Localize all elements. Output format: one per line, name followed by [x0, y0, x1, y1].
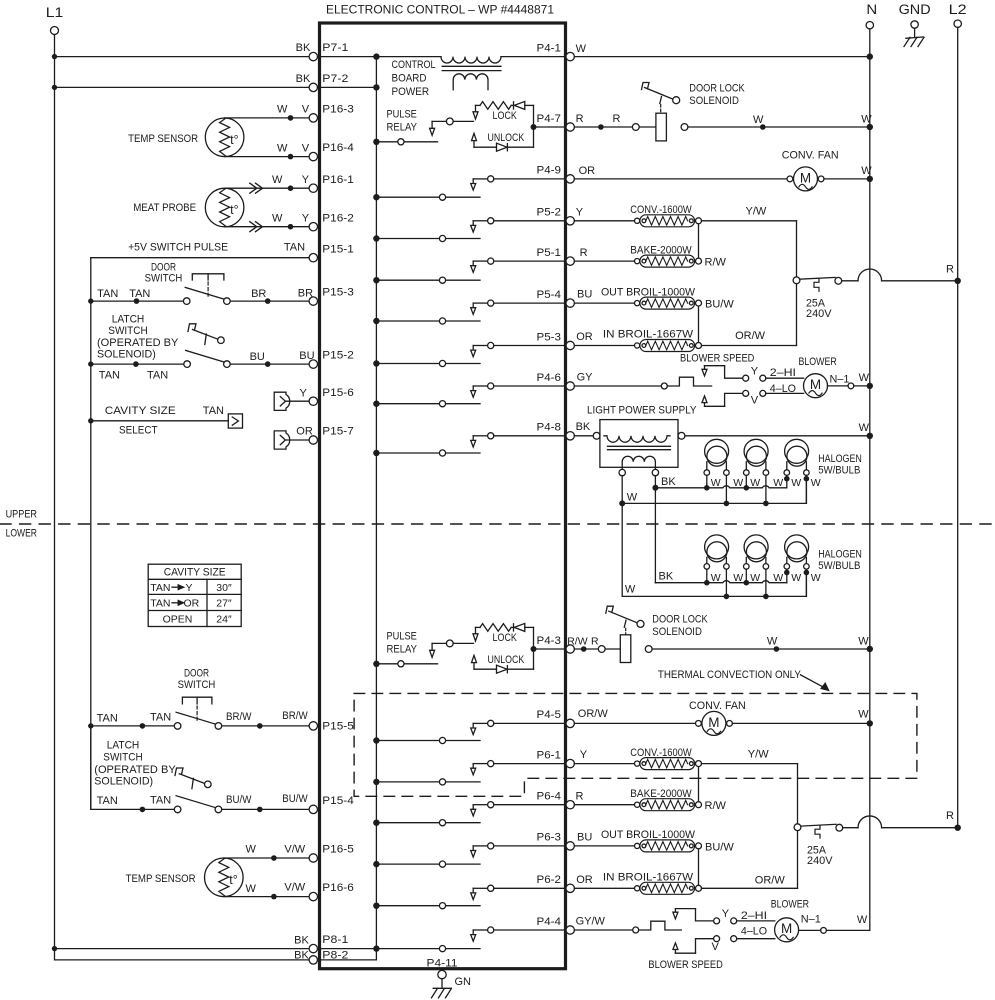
meat probe zigzag [220, 189, 230, 227]
wire P8-2 into board [318, 949, 377, 960]
svg-text:GY/W: GY/W [576, 916, 606, 928]
wire label W supply [859, 422, 870, 434]
heater element OUT BROIL-1000W [635, 297, 702, 309]
pulse relay label upper [387, 109, 418, 134]
svg-text:DOOR LOCK: DOOR LOCK [652, 614, 708, 626]
connector P16-4 label [322, 142, 354, 154]
wire bulb lower1 left leg to BK [706, 569, 708, 583]
node splice P16-6 [271, 894, 277, 900]
connector P16-6 label [322, 882, 354, 894]
light supply secondary terminal W [619, 469, 625, 475]
svg-text:OR: OR [296, 426, 313, 438]
light supply transformer primary [604, 436, 670, 442]
wire label BU/W a [226, 794, 252, 806]
halogen bulb upper1 [705, 439, 729, 466]
wire LOCK to node lower [533, 627, 535, 649]
wire P6-3 to heater [574, 845, 637, 847]
wire P6-1 to heater [574, 763, 637, 765]
svg-text:TAN: TAN [99, 370, 120, 382]
temp sensor upper label [128, 133, 198, 145]
pulse relay arm wire upper [432, 121, 473, 128]
svg-text:W: W [753, 114, 764, 126]
svg-text:UPPER: UPPER [6, 509, 37, 521]
connector P4-4 pin circle [566, 926, 574, 934]
wire label W halogen upper x710.8 [711, 477, 721, 489]
label GN [455, 976, 472, 988]
wire label V/W P16-6 [284, 881, 305, 893]
wire label TAN door upper b [129, 288, 150, 300]
door lock solenoid L2s label [652, 614, 708, 639]
wire P4-11 ground stem [441, 979, 443, 989]
temp sensor lower zigzag [219, 858, 229, 896]
svg-text:240V: 240V [806, 308, 832, 320]
node splice P4-3 [581, 646, 587, 652]
svg-text:P15-2: P15-2 [322, 350, 354, 362]
connector P7-2 label [322, 73, 348, 85]
wire bulb lower2 right leg to W [765, 569, 767, 596]
wire label GY/W P4-4 [576, 916, 606, 928]
wire supply to N [685, 435, 870, 437]
wire label W P16-2 [272, 213, 283, 225]
svg-text:RELAY: RELAY [387, 644, 418, 656]
node L1 P8-1 junction [52, 946, 57, 951]
wire TAN to door switch upper [91, 300, 184, 302]
label UNLOCK upper [488, 132, 525, 144]
svg-text:SWITCH: SWITCH [178, 679, 216, 691]
svg-text:GN: GN [455, 976, 472, 988]
svg-text:BU: BU [577, 832, 592, 844]
svg-text:SWITCH: SWITCH [145, 273, 183, 285]
wire label W P16-6 [246, 883, 257, 895]
title text ELECTRONIC CONTROL - WP #4448871 [326, 3, 554, 17]
wire OUTBROIL-INBROIL tie lower [698, 849, 700, 885]
label UPPER [6, 509, 37, 521]
wire secondary W down upper [621, 476, 623, 504]
wire label BK upper [661, 476, 676, 488]
node splice bulb upper3 left [784, 476, 790, 482]
node splice BR/W [257, 723, 263, 729]
circuit breaker CB contacts280.8 [793, 277, 842, 291]
connector P4-5 pin circle [566, 719, 574, 727]
connector P5-2 pin circle [566, 217, 574, 225]
heater element IN BROIL-1667W [635, 340, 702, 352]
svg-text:BK: BK [296, 42, 311, 54]
halogen bulb lower3 [785, 535, 809, 562]
svg-text:30″: 30″ [216, 582, 232, 594]
svg-text:TAN: TAN [129, 288, 150, 300]
relay contact K-P4-6 [376, 383, 566, 407]
node bus relay junction K-P4-6 [373, 401, 379, 407]
svg-text:W: W [750, 477, 760, 489]
node N P4-9 junction [867, 176, 873, 182]
connector P6-4 label [537, 791, 562, 803]
halogen bulb lower1 [705, 535, 729, 562]
door lock solenoid L2s body [620, 635, 631, 663]
svg-text:SWITCH: SWITCH [103, 752, 142, 764]
svg-text:P5-4: P5-4 [537, 289, 562, 301]
circuit breaker label827.7 [807, 845, 833, 868]
wire P4-7 segment c [639, 126, 656, 128]
svg-text:R: R [591, 636, 599, 648]
connector P15-4 pin circle [309, 805, 317, 813]
svg-text:W: W [773, 572, 783, 584]
node bus relay junction K-P6-1 [373, 779, 379, 785]
svg-text:TAN: TAN [97, 795, 118, 807]
svg-text:BR/W: BR/W [226, 711, 252, 723]
svg-text:BK: BK [576, 421, 591, 433]
svg-text:GND: GND [899, 2, 931, 17]
wire CONV-BAKE tie lower [698, 767, 700, 802]
terminal N label [866, 2, 877, 17]
svg-text:W: W [858, 709, 869, 721]
temp sensor upper t deg [230, 133, 238, 147]
meat probe label [133, 202, 196, 214]
UNLOCK branch arrow lower [472, 655, 477, 669]
wire label W halogen upper x791.3 [791, 477, 801, 489]
svg-text:N–1: N–1 [830, 374, 850, 386]
svg-text:P6-4: P6-4 [537, 791, 562, 803]
connector P4-9 label [537, 165, 562, 177]
wire P4-6 to splice [574, 385, 661, 387]
thermal convection dashed box [354, 693, 917, 796]
blower speed hi contacts upper [743, 375, 766, 381]
wire 2-HI to motor upper [766, 377, 804, 379]
svg-text:CONV. FAN: CONV. FAN [782, 150, 839, 162]
svg-text:R: R [946, 810, 954, 822]
svg-text:P4-5: P4-5 [537, 709, 562, 721]
label N-1 upper [830, 374, 850, 386]
svg-text:W: W [625, 583, 636, 595]
wire label W fan lower [858, 709, 869, 721]
svg-text:W: W [246, 883, 257, 895]
svg-text:DOOR: DOOR [184, 668, 209, 680]
svg-text:W: W [733, 572, 743, 584]
divider dashed line [0, 523, 993, 525]
svg-text:P15-3: P15-3 [322, 287, 354, 299]
wire label W P4-3 a [767, 636, 778, 648]
connector P16-4 pin circle [309, 152, 317, 160]
label SELECT [119, 424, 158, 436]
label LOCK lower [493, 632, 518, 644]
wire label W halogen lower x810.8 [811, 572, 821, 584]
wire CONV to breaker col [702, 220, 797, 222]
svg-text:W: W [858, 636, 869, 648]
svg-text:P15-5: P15-5 [322, 721, 354, 733]
wire label R P5-1 [580, 247, 588, 259]
door switch S1 linkage [192, 274, 224, 297]
svg-text:R/W: R/W [705, 257, 727, 269]
wire label W halogen lower x773.2 [773, 572, 783, 584]
wire bulb upper1 left leg to BK [706, 475, 708, 487]
resistor LOCK upper [476, 102, 514, 110]
svg-text:MEAT PROBE: MEAT PROBE [133, 202, 196, 214]
svg-text:BU/W: BU/W [705, 842, 734, 854]
wire label W P16-4 [277, 142, 288, 154]
node splice latch TAN lower [140, 807, 146, 813]
wire label TAN latch lower a [97, 795, 118, 807]
cavity select output flag P15-6 [274, 392, 309, 410]
pulse relay contact circle upper [398, 139, 404, 145]
terminal N circle [866, 22, 873, 29]
svg-text:TAN: TAN [97, 712, 118, 724]
connector P15-4 label [322, 795, 354, 807]
svg-text:W: W [791, 477, 801, 489]
svg-text:HALOGEN: HALOGEN [818, 453, 862, 465]
label 4-LO upper [770, 383, 797, 395]
svg-text:BU: BU [250, 351, 265, 363]
node W junction upper1 [724, 501, 730, 507]
wire label W P4-1 [576, 43, 587, 55]
heater label OUT BROIL-1000W [601, 829, 696, 841]
wire label TAN latch lower b [150, 794, 171, 806]
latch switch S4 label [94, 740, 176, 788]
cavity size table grid [148, 564, 241, 626]
transformer T1 label CONTROL BOARD POWER [392, 59, 436, 98]
heater label OUT BROIL-1000W [601, 286, 696, 298]
svg-text:P16-5: P16-5 [322, 844, 354, 856]
svg-text:TAN: TAN [203, 405, 224, 417]
node L2 breaker junction280.8 [955, 278, 961, 284]
svg-text:BU/W: BU/W [226, 794, 252, 806]
connector P15-7 pin circle [309, 436, 317, 444]
wire +5V to P15-1 [91, 257, 309, 259]
blower speed hi arm lower [673, 909, 714, 921]
svg-text:SOLENOID): SOLENOID) [94, 776, 153, 788]
svg-text:V/W: V/W [284, 843, 305, 855]
svg-text:CONV. FAN: CONV. FAN [689, 700, 746, 712]
svg-text:UNLOCK: UNLOCK [488, 132, 525, 144]
wire P4-1 to N [574, 56, 869, 58]
svg-text:CONV.-1600W: CONV.-1600W [630, 204, 692, 216]
svg-text:CAVITY SIZE: CAVITY SIZE [105, 405, 176, 417]
blower terminal circle lower [821, 928, 827, 934]
heater element CONV.-1600W [635, 758, 702, 770]
svg-text:24″: 24″ [216, 613, 232, 625]
wire label W halogen lower x791.3 [791, 572, 801, 584]
transformer T1 primary coil [441, 57, 501, 63]
svg-text:2–HI: 2–HI [770, 367, 796, 379]
svg-text:TAN: TAN [147, 370, 168, 382]
connector P4-5 label [537, 709, 562, 721]
wire breaker col upper segment b [796, 284, 798, 346]
svg-text:P5-1: P5-1 [537, 247, 562, 259]
connector P15-2 pin circle [309, 360, 317, 368]
relay contact K-P6-1 [376, 761, 566, 786]
wire breaker to L2 hop827.7 [843, 816, 958, 828]
wire label BU/W [705, 842, 734, 854]
terminal L1 circle [51, 27, 59, 35]
svg-text:P4-6: P4-6 [537, 372, 562, 384]
wire breaker col lower segment a [797, 764, 799, 824]
svg-text:t°: t° [229, 873, 237, 887]
connector P16-2 pin circle [309, 223, 317, 231]
wire TAN bus vertical [90, 258, 92, 810]
wire label R P4-3 [591, 636, 599, 648]
label 4-LO lower [741, 926, 768, 938]
connector P4-11 label [427, 957, 458, 969]
svg-text:W: W [627, 491, 638, 503]
cavity size table title [164, 567, 226, 579]
svg-text:P16-4: P16-4 [322, 142, 354, 154]
connector P16-6 pin circle [309, 892, 317, 900]
connector P4-8 label [537, 422, 562, 434]
node BK junction lower1 [704, 580, 710, 586]
svg-text:LOWER: LOWER [6, 527, 37, 539]
blower motor M4 lower [775, 918, 799, 942]
node BK junction upper2 [744, 485, 750, 491]
label LOCK upper [493, 110, 518, 122]
wire bulb upper3 right leg [805, 475, 807, 503]
heater label BAKE-2000W [630, 244, 692, 256]
wire label OR/W upper [735, 330, 766, 342]
node TAN bus latch junction upper [88, 361, 93, 366]
node splice BR [265, 298, 271, 304]
svg-text:W: W [272, 174, 283, 186]
wire label OR P5-3 [576, 331, 593, 343]
node N P4-7 junction [867, 124, 873, 130]
light power supply label [587, 405, 697, 417]
cavity select output flag P15-7 [274, 431, 309, 449]
wire 4-LO to motor lower [737, 938, 775, 940]
svg-text:W: W [733, 477, 743, 489]
blower speed bump wire lower [639, 921, 682, 930]
svg-text:W: W [857, 914, 868, 926]
svg-text:RELAY: RELAY [387, 122, 418, 134]
wire label W halogen upper x810.8 [811, 477, 821, 489]
wire meat probe to P16-2 [225, 226, 310, 228]
svg-text:Y: Y [722, 908, 730, 920]
wire BK bus lower [655, 581, 786, 583]
svg-text:P4-9: P4-9 [537, 165, 562, 177]
wire label R/W [705, 257, 727, 269]
node L1-P7-2 junction [52, 85, 57, 90]
connector P5-3 label [537, 331, 562, 343]
relay contact K-P5-1 [376, 258, 566, 283]
wire label W P4-3 b [858, 636, 869, 648]
wire meat probe to P16-1 [225, 187, 310, 189]
svg-text:SELECT: SELECT [119, 424, 158, 436]
label N-1 lower [801, 914, 821, 926]
svg-text:Y/W: Y/W [748, 748, 769, 760]
svg-text:W: W [711, 477, 721, 489]
svg-text:W: W [246, 843, 257, 855]
svg-text:BK: BK [294, 949, 309, 961]
relay contact K-P4-9 [376, 176, 566, 201]
svg-text:CONV.-1600W: CONV.-1600W [630, 747, 692, 759]
svg-text:OR/W: OR/W [578, 708, 609, 720]
relay contact K-P6-4 [376, 802, 566, 826]
halogen label upper [818, 453, 862, 477]
diode UNLOCK upper [474, 143, 534, 151]
svg-text:BK: BK [296, 73, 311, 85]
terminal L2 circle [954, 20, 961, 27]
door lock solenoid L2s lever [606, 606, 637, 634]
conv fan lower label [689, 700, 746, 712]
meat probe plug chevrons P16-1 [250, 183, 263, 193]
door switch S3 contacts [174, 712, 221, 729]
svg-text:P4-1: P4-1 [537, 42, 562, 54]
wire 2-HI to motor lower [737, 920, 775, 922]
connector P16-2 label [322, 212, 354, 224]
diode LOCK upper [514, 101, 534, 109]
wire BK vertical to lower group [654, 488, 656, 583]
wire fan to N [824, 178, 870, 180]
svg-text:5W/BULB: 5W/BULB [818, 560, 860, 572]
svg-text:P6-2: P6-2 [537, 874, 562, 886]
svg-text:BK: BK [661, 476, 676, 488]
wire temp sensor lower to P16-6 [224, 896, 309, 898]
svg-text:2–HI: 2–HI [741, 910, 767, 922]
wire label Y P5-2 [576, 207, 584, 219]
connector P4-1 label [537, 42, 562, 54]
temp sensor lower body [205, 858, 244, 897]
wire label BR b [298, 287, 313, 299]
latch switch S2 label [97, 313, 179, 360]
wire label V P16-3 [302, 104, 310, 116]
wire P4-3 segment c [652, 648, 870, 650]
wire P5-2 to heater [574, 220, 637, 222]
relay contact K-P5-4 [376, 300, 566, 324]
blower speed lo contacts lower [714, 936, 737, 942]
svg-text:W: W [767, 636, 778, 648]
temp sensor lower label [126, 873, 196, 885]
transformer T1 secondary coil [453, 74, 488, 90]
svg-text:OR: OR [576, 874, 593, 886]
connector P8-1 label [322, 934, 348, 946]
node splice P4-3 b [774, 646, 780, 652]
svg-text:Y: Y [302, 174, 310, 186]
node BK junction upper1 [704, 485, 710, 491]
svg-text:OUT BROIL-1000W: OUT BROIL-1000W [601, 286, 696, 298]
svg-text:OR: OR [579, 165, 596, 177]
wire label BK P8-1 [294, 935, 309, 947]
node BK junction lower2 [744, 580, 750, 586]
wire label BU P6-3 [577, 832, 592, 844]
label LOWER [6, 527, 37, 539]
node bus relay junction K-P6-3 [373, 861, 379, 867]
svg-text:P4-8: P4-8 [537, 422, 562, 434]
door lock solenoid L1 label [689, 83, 745, 108]
connector P15-7 label [322, 426, 354, 438]
connector P4-7 pin circle [566, 123, 574, 131]
svg-text:OR: OR [184, 597, 200, 609]
wire temp sensor to P16-3 [225, 117, 310, 119]
connector P15-2 label [322, 350, 354, 362]
wire P6-4 to heater [574, 804, 637, 806]
wire door switch lower to P15-5 [222, 725, 309, 727]
wire label W fan upper [861, 165, 872, 177]
svg-text:IN BROIL-1667W: IN BROIL-1667W [603, 872, 694, 884]
wire TAN to latch switch lower [91, 726, 175, 810]
halogen bulb upper2 legs [744, 462, 769, 476]
wire P4-8 to supply [574, 435, 593, 437]
wire label BK P4-8 [576, 421, 591, 433]
svg-text:V: V [712, 941, 720, 953]
node TAN bus select junction [88, 418, 93, 423]
connector P15-6 pin circle [309, 397, 317, 405]
svg-text:M: M [781, 921, 792, 936]
svg-text:W: W [773, 477, 783, 489]
wire transformer to P4-1 [501, 56, 566, 58]
connector P5-1 pin circle [566, 257, 574, 265]
svg-text:SOLENOID: SOLENOID [652, 626, 702, 638]
svg-text:W: W [811, 572, 821, 584]
svg-text:TEMP SENSOR: TEMP SENSOR [128, 133, 198, 145]
node bus relay junction K-P4-8 [373, 450, 379, 456]
wire INBROIL lower to breaker col [702, 887, 798, 889]
svg-text:P8-1: P8-1 [322, 934, 348, 946]
svg-text:W: W [750, 572, 760, 584]
